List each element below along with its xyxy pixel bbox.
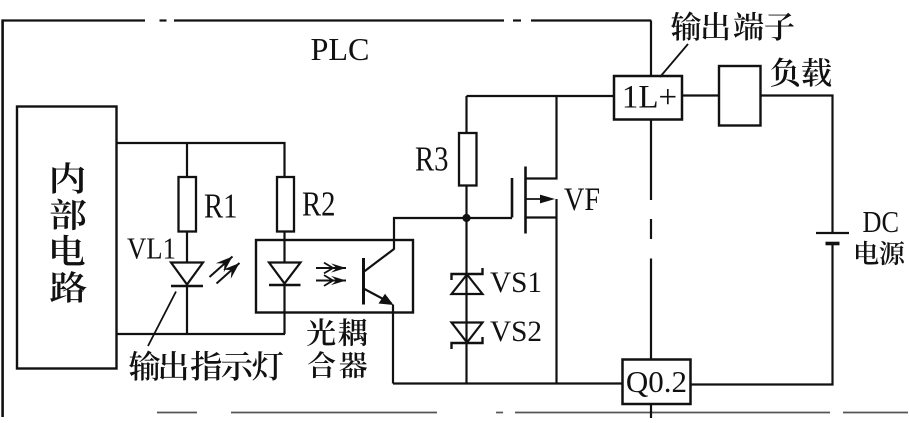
wire: opto collector up and right to node — [394, 218, 467, 250]
VF body arrow — [526, 198, 546, 200]
terminal box Q0.2 — [623, 360, 691, 405]
wire: R3 bottom to node — [465, 186, 467, 219]
LED emission arrows — [210, 257, 240, 284]
optocoupler LED — [269, 263, 301, 284]
text 输出指示灯 (output indicator lamp) — [129, 350, 283, 380]
wire: R3 top to +rail — [465, 96, 467, 133]
wire: 1L+ down (broken with chain) — [650, 120, 652, 201]
VF channel bar — [524, 167, 527, 234]
wire: node down through VS1/VS2 — [465, 218, 467, 384]
svg-text:VF: VF — [564, 182, 600, 218]
svg-text:VL1: VL1 — [127, 231, 176, 266]
callout line to 输出指示灯 — [148, 292, 176, 347]
text 合器 — [308, 351, 367, 378]
PLC boundary chain line (top) — [3, 19, 145, 21]
text 负载 (load) — [771, 58, 831, 87]
svg-text:PLC: PLC — [311, 32, 370, 67]
resistor R1 — [179, 177, 197, 232]
resistor R3 — [459, 133, 477, 186]
wire: boundary down to terminal 1L+ — [650, 21, 652, 77]
resistor R2 — [277, 177, 294, 232]
wire: R2 to optocoupler LED — [283, 232, 285, 264]
svg-text:Q0.2: Q0.2 — [626, 364, 687, 399]
wire: opto emitter down to bottom rail — [392, 305, 394, 384]
wire: node to MOSFET gate — [467, 217, 513, 219]
VF drain line — [526, 96, 557, 179]
svg-text:R2: R2 — [302, 185, 336, 224]
svg-text:VS1: VS1 — [490, 266, 542, 299]
optocoupler phototransistor — [364, 249, 395, 305]
battery positive plate — [816, 232, 849, 234]
wire: R1 top stub — [186, 143, 188, 178]
node junction dot — [462, 214, 470, 222]
wire: top +rail to output terminal — [467, 95, 615, 97]
svg-text:R1: R1 — [204, 187, 238, 226]
text 光耦 — [307, 318, 367, 346]
wire: load to DC supply — [761, 96, 833, 234]
callout line to 输出端子 — [660, 44, 688, 77]
PLC boundary chain line (bottom) — [157, 412, 197, 414]
text 内部电路 (internal circuit) — [50, 162, 86, 302]
wire: VL1 cathode down — [186, 286, 188, 334]
text 输出端子 (output terminal) — [671, 11, 794, 40]
terminal box 1L+ — [614, 76, 682, 120]
wire: Q0.2 down to image bottom — [650, 404, 652, 418]
wire: internal circuit bottom return — [117, 333, 286, 335]
optocoupler box — [256, 240, 413, 313]
LED VL1 (output indicator) — [171, 263, 203, 285]
wire: opto LED cathode down to return — [283, 285, 285, 334]
svg-text:DC: DC — [863, 205, 900, 239]
text 电源 — [856, 241, 904, 265]
svg-text:VS2: VS2 — [490, 315, 542, 348]
wire: 1L+ to load — [682, 94, 719, 96]
wire: bottom rail to Q0.2 — [393, 382, 623, 384]
zener diode VS2 — [452, 323, 483, 350]
PLC boundary chain line (left) — [1, 19, 4, 417]
load box — [719, 66, 761, 126]
transistor VF (MOSFET) gate bar — [511, 178, 514, 218]
battery negative plate — [826, 242, 840, 246]
wire: battery to bottom right — [691, 244, 833, 385]
label DC 电源 — [856, 205, 904, 265]
zener diode VS1 — [452, 268, 483, 294]
wire: R1 to VL1 — [186, 232, 188, 264]
wire: VF source down to bottom rail — [555, 199, 557, 384]
wire: internal circuit top output to R1/R2 — [117, 143, 285, 177]
label 光耦合器 — [307, 318, 367, 378]
optocoupler light arrows — [316, 263, 346, 286]
VF source line — [526, 216, 557, 218]
svg-text:R3: R3 — [415, 140, 449, 179]
svg-text:1L+: 1L+ — [622, 80, 677, 116]
internal circuit box 内部电路 — [17, 107, 117, 369]
